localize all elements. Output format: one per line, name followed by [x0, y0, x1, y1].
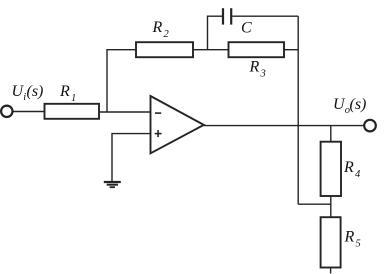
op-amp U1 [151, 96, 204, 153]
wire: capacitor C to feedback rail [232, 15, 298, 17]
resistor R3 [229, 42, 285, 57]
svg-text:(s): (s) [350, 96, 367, 113]
wire: non-inverting input to ground [112, 134, 151, 182]
svg-text:C: C [241, 20, 252, 37]
wire: R3 to feedback rail [284, 49, 298, 51]
svg-text:2: 2 [164, 29, 170, 40]
svg-text:R: R [343, 159, 354, 176]
wire: R1 to op-amp inverting input (node A) [99, 111, 151, 113]
resistor R2 [136, 42, 193, 57]
resistor R5 [321, 217, 341, 267]
svg-text:5: 5 [356, 239, 361, 250]
wire: below R5 [330, 268, 332, 274]
wire: feedback rail down [297, 16, 299, 204]
svg-text:R: R [249, 59, 260, 76]
svg-text:R: R [344, 229, 355, 246]
svg-text:R: R [152, 19, 163, 36]
capacitor C [222, 8, 224, 24]
svg-text:3: 3 [260, 69, 266, 80]
wire: feedback rail to R4/R5 junction [298, 203, 331, 205]
resistor R4 [321, 142, 341, 196]
wire: R2 to node B [193, 49, 208, 51]
op-amp non-inverting input plus sign [155, 133, 162, 135]
svg-text:4: 4 [355, 169, 361, 180]
op-amp inverting input minus sign [155, 112, 161, 114]
ground [104, 181, 121, 183]
wire: node B up to capacitor C [208, 16, 223, 50]
wire: node B to R3 [208, 49, 229, 51]
wire: node A up to R2 [107, 50, 136, 112]
input terminal Ui(s) [1, 106, 12, 117]
output terminal Uo(s) [364, 120, 376, 132]
svg-text:R: R [59, 83, 70, 100]
svg-text:(s): (s) [27, 83, 44, 100]
svg-text:1: 1 [71, 93, 76, 104]
wire: output node down to R4 [330, 126, 332, 142]
wire: op-amp output to output terminal [204, 125, 364, 127]
wire: R4 to R5 (junction with feedback) [330, 196, 332, 217]
resistor R1 [45, 104, 100, 119]
wire: input terminal to R1 [13, 111, 45, 113]
